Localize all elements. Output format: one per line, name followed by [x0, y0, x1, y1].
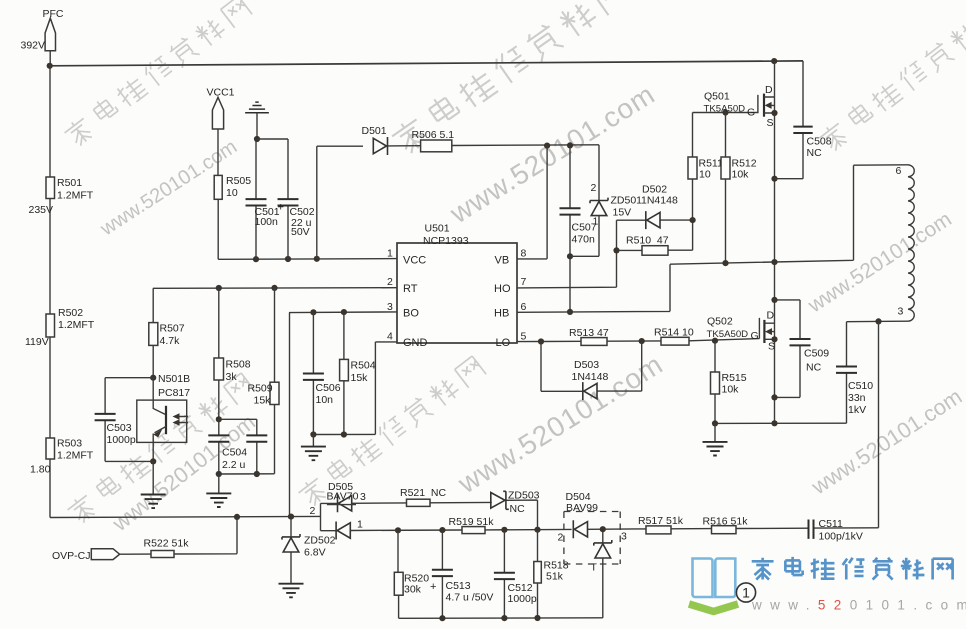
svg-text:TK5A50D: TK5A50D — [704, 104, 746, 115]
svg-text:G: G — [751, 330, 759, 342]
svg-text:470n: 470n — [572, 234, 596, 246]
connector VCC1 — [207, 86, 235, 129]
wire VCC to D501 riser — [316, 146, 318, 259]
logo circled 1 — [736, 583, 755, 602]
resistor R505 — [214, 175, 251, 199]
capacitor C504 left — [208, 419, 247, 474]
svg-text:R516 51k: R516 51k — [703, 515, 749, 527]
svg-text:OVP-CJ: OVP-CJ — [52, 550, 91, 562]
resistor R503 — [30, 437, 94, 475]
svg-text:1kV: 1kV — [848, 404, 866, 416]
svg-text:BAV70: BAV70 — [327, 491, 359, 503]
wire HB row pin6 — [517, 264, 670, 312]
svg-text:R501: R501 — [57, 177, 82, 189]
node bottom-C512 — [501, 615, 507, 621]
svg-text:1000p: 1000p — [107, 434, 136, 446]
svg-text:1: 1 — [357, 519, 363, 531]
node HB-halfbridge — [771, 259, 777, 265]
node C504 right bottom — [254, 471, 260, 477]
zener ZD503 NC — [430, 490, 540, 530]
svg-text:1.80: 1.80 — [30, 463, 51, 475]
wire RT row pin2 — [153, 287, 397, 290]
svg-text:C504: C504 — [222, 447, 247, 459]
node OVP rail ZD502-BO — [288, 514, 294, 520]
svg-text:6: 6 — [896, 165, 902, 177]
svg-text:3: 3 — [898, 306, 904, 318]
node C509 top branch — [771, 297, 777, 303]
wire BO-OVP bottom rail — [50, 516, 321, 517]
node opto emitter — [150, 458, 156, 464]
svg-text:2: 2 — [558, 532, 564, 544]
svg-text:GND: GND — [403, 337, 428, 349]
svg-text:100p/1kV: 100p/1kV — [819, 531, 863, 543]
svg-text:VCC1: VCC1 — [207, 86, 235, 98]
wire C511 riser — [878, 321, 880, 527]
svg-text:3: 3 — [387, 301, 393, 313]
wire LO row pin5 and gate Q502 — [517, 318, 759, 342]
svg-text:HO: HO — [494, 283, 511, 295]
ground top earth above C501 — [245, 102, 269, 139]
svg-text:D501: D501 — [362, 125, 387, 137]
node RT-R509 — [271, 285, 277, 291]
node row-R520 — [395, 527, 401, 533]
ground under ZD502 — [279, 584, 304, 598]
resistor R520 — [394, 530, 429, 618]
node row-C513 — [439, 527, 445, 533]
wire source ground rail — [715, 422, 847, 424]
transistor Q501 TK5A50D MOSFET — [704, 84, 775, 129]
wire BO row pin3 — [289, 311, 397, 314]
node VCC-C502 — [285, 256, 291, 262]
node PFC rail junction — [47, 63, 53, 69]
wire PFC stub — [49, 51, 51, 66]
svg-text:C508: C508 — [807, 136, 832, 148]
connector OVP-CJ — [52, 549, 120, 562]
resistor R506 — [412, 129, 455, 152]
node gate-R515 — [712, 338, 718, 344]
node C507-ZD501 anode — [567, 253, 573, 259]
svg-text:HB: HB — [494, 307, 509, 319]
svg-text:R510 47: R510 47 — [626, 234, 669, 246]
svg-text:1: 1 — [387, 248, 393, 260]
wire C504 bottom rail to R509 — [219, 405, 275, 475]
ground under C504 — [206, 474, 231, 507]
svg-text:1.2MFT: 1.2MFT — [57, 449, 94, 461]
ground under C506 R504 — [301, 435, 326, 461]
resistor R501 — [29, 177, 94, 216]
svg-text:1.2MFT: 1.2MFT — [58, 319, 95, 331]
svg-text:C510: C510 — [848, 380, 873, 392]
svg-text:119V: 119V — [25, 336, 49, 348]
svg-text:10n: 10n — [316, 394, 334, 406]
node R513-R514 — [639, 338, 645, 344]
svg-text:2: 2 — [387, 276, 393, 288]
svg-text:S: S — [768, 341, 775, 353]
node HB-R512 — [722, 260, 728, 266]
svg-text:15V: 15V — [613, 207, 632, 219]
diode D502 1N4148 — [617, 183, 693, 229]
svg-text:T: T — [591, 562, 598, 574]
node LO pin5 — [538, 338, 544, 344]
svg-text:PC817: PC817 — [158, 387, 190, 399]
resistor R515 — [711, 341, 747, 424]
node VB riser — [544, 143, 550, 149]
svg-text:R502: R502 — [58, 307, 83, 319]
diode D504 BAV99 dual — [558, 491, 647, 618]
svg-text:D: D — [767, 310, 775, 322]
node VCC-C501 — [253, 256, 259, 262]
node winding-C511 riser — [875, 318, 881, 324]
svg-text:C511: C511 — [819, 518, 843, 530]
diode D501 — [362, 125, 388, 155]
logo url — [751, 598, 966, 613]
resistor R513 — [569, 327, 609, 345]
resistor R521 NC — [400, 487, 447, 507]
capacitor C508 — [775, 61, 832, 179]
wire half-bridge vertical Q501-Q502 — [774, 61, 776, 423]
svg-text:2.2 u: 2.2 u — [222, 459, 246, 471]
node C504 left bottom — [216, 471, 222, 477]
svg-text:6.8V: 6.8V — [304, 547, 326, 559]
svg-text:3: 3 — [360, 491, 366, 503]
wire HB rail — [670, 165, 908, 264]
svg-text:BO: BO — [403, 307, 419, 319]
capacitor C513 electrolytic — [430, 530, 493, 618]
svg-text:G: G — [747, 106, 755, 118]
node GND-C506 — [310, 431, 316, 437]
logo chinese title — [752, 557, 953, 580]
wire BO drop to OVP rail — [289, 313, 291, 517]
svg-text:R507: R507 — [160, 323, 185, 335]
svg-text:ZD501: ZD501 — [611, 195, 643, 207]
wire winding pin3 lead — [847, 320, 909, 323]
wire R517-R516 — [671, 528, 712, 530]
svg-text:235V: 235V — [29, 204, 54, 216]
resistor R510 — [617, 220, 693, 255]
connector PFC — [21, 8, 64, 52]
resistor R514 — [654, 327, 694, 346]
wire feedback row right of R519 — [485, 528, 572, 531]
capacitor C511 series — [736, 518, 879, 543]
wire VB riser to pin8 — [517, 146, 547, 259]
ground under optocoupler — [141, 461, 166, 508]
svg-text:NCP1393: NCP1393 — [423, 235, 469, 247]
wire D501 row — [317, 145, 599, 146]
resistor R508 — [214, 288, 251, 419]
node bottom-R518 — [534, 615, 540, 621]
wire R505 to VCC rail — [217, 199, 219, 259]
svg-text:R522 51k: R522 51k — [144, 538, 190, 550]
svg-text:1: 1 — [742, 585, 750, 601]
wire PFC top rail — [50, 61, 803, 66]
svg-text:D504: D504 — [566, 491, 591, 503]
node rail-R515 — [712, 420, 718, 426]
svg-text:R515: R515 — [722, 372, 747, 384]
svg-text:N501B: N501B — [158, 373, 190, 385]
svg-text:PFC: PFC — [43, 8, 64, 20]
svg-text:1N4148: 1N4148 — [641, 194, 678, 206]
svg-text:6: 6 — [521, 301, 527, 313]
svg-text:R514 10: R514 10 — [654, 327, 694, 339]
node C508 bottom junction — [771, 176, 777, 182]
inductor transformer primary winding — [896, 165, 915, 321]
svg-text:BAV99: BAV99 — [566, 502, 598, 514]
node D502-R511 — [690, 217, 696, 223]
node ground-C501-C502 junction — [254, 136, 260, 142]
node Q501 drain on PFC rail — [771, 58, 777, 64]
wire VCC rail — [218, 258, 397, 261]
resistor R522 — [120, 517, 237, 558]
WATERMARKS — [62, 0, 966, 526]
svg-text:R509: R509 — [248, 382, 273, 394]
svg-text:1: 1 — [593, 216, 599, 228]
logo book icon — [689, 559, 738, 612]
svg-text:R506 5.1: R506 5.1 — [412, 129, 455, 141]
svg-text:C513: C513 — [446, 580, 471, 592]
wire bottom return rail — [399, 617, 603, 620]
svg-text:7: 7 — [521, 276, 527, 288]
svg-text:R503: R503 — [57, 437, 82, 449]
svg-text:C509: C509 — [804, 348, 829, 360]
resistor R504 — [340, 312, 376, 434]
node VCC-D501 branch — [314, 256, 320, 262]
zener ZD502 6.8V — [282, 517, 336, 584]
wire PFC left column — [49, 66, 51, 518]
svg-text:VCC: VCC — [403, 254, 426, 266]
svg-text:R508: R508 — [226, 358, 251, 370]
svg-text:D: D — [765, 84, 773, 96]
svg-text:ZD502: ZD502 — [304, 535, 336, 547]
wire C504 top branch — [219, 419, 257, 435]
svg-text:1.2MFT: 1.2MFT — [57, 189, 94, 201]
wire HO row pin7 — [517, 220, 617, 288]
svg-text:U501: U501 — [425, 223, 450, 235]
node row-R518 ZD503 — [534, 527, 540, 533]
wire GND pin4 route — [313, 342, 397, 435]
svg-text:15k: 15k — [254, 394, 272, 406]
svg-text:1000p: 1000p — [508, 593, 537, 605]
resistor R512 — [721, 113, 757, 265]
svg-text:4.7 u /50V: 4.7 u /50V — [446, 592, 494, 604]
ground under R515 — [703, 423, 728, 455]
wire Q501 gate — [693, 95, 758, 113]
svg-text:R504: R504 — [351, 359, 376, 371]
svg-text:NC: NC — [807, 147, 823, 159]
node GND-R504 — [341, 431, 347, 437]
svg-text:VB: VB — [495, 254, 510, 266]
svg-text:TK5A50D: TK5A50D — [707, 329, 749, 340]
resistor R507 — [149, 288, 185, 377]
wire ground junction to C502 top — [257, 138, 288, 140]
resistor R516 — [703, 515, 749, 533]
svg-text:Q501: Q501 — [704, 90, 730, 102]
svg-text:4: 4 — [387, 331, 393, 343]
node Q502 source stub — [771, 336, 777, 342]
op-amp U501 NCP1393 controller IC — [387, 223, 527, 349]
svg-text:50V: 50V — [291, 226, 310, 238]
node bottom-C513 — [439, 615, 445, 621]
capacitor C506 — [303, 312, 341, 434]
svg-text:10: 10 — [226, 187, 238, 199]
node C509 bottom junction — [771, 394, 777, 400]
node row-C512 — [501, 527, 507, 533]
svg-text:D503: D503 — [574, 359, 599, 371]
transistor Q502 TK5A50D MOSFET — [707, 310, 776, 353]
capacitor C504 right section — [246, 435, 267, 474]
svg-text:8: 8 — [521, 248, 527, 260]
svg-text:+: + — [430, 581, 436, 593]
svg-text:3k: 3k — [226, 371, 238, 383]
node C507 riser — [567, 142, 573, 148]
resistor R518 — [534, 530, 569, 618]
svg-text:NC: NC — [510, 503, 526, 515]
resistor R519 — [449, 516, 495, 534]
svg-text:2: 2 — [591, 182, 597, 194]
resistor R502 — [25, 307, 95, 348]
node HO-R510 tap — [613, 247, 619, 253]
svg-text:Q502: Q502 — [707, 316, 733, 328]
svg-text:3: 3 — [621, 531, 627, 543]
svg-text:1N4148: 1N4148 — [572, 371, 609, 383]
svg-text:51k: 51k — [546, 571, 564, 583]
svg-text:S: S — [767, 117, 774, 129]
transistor N501B PC817 optocoupler — [137, 378, 188, 462]
svg-text:R519 51k: R519 51k — [449, 516, 495, 528]
svg-text:C503: C503 — [107, 422, 132, 434]
capacitor C509 — [775, 300, 830, 398]
node D504 junction — [600, 526, 606, 532]
node R508-C504 — [216, 416, 222, 422]
svg-text:LO: LO — [496, 337, 511, 349]
svg-text:2: 2 — [310, 505, 316, 517]
svg-text:10k: 10k — [722, 384, 740, 396]
capacitor C501 — [246, 139, 280, 259]
svg-text:www.520101.com: www.520101.com — [751, 598, 966, 613]
node C507-HB row — [567, 309, 573, 315]
node rail-Q502 source — [771, 420, 777, 426]
node gate-R512 — [722, 109, 728, 115]
resistor R511 — [688, 113, 723, 221]
diode D505 BAV70 dual — [310, 481, 463, 540]
node R507-opto collector — [150, 375, 156, 381]
svg-text:10k: 10k — [732, 168, 750, 180]
svg-text:392V: 392V — [21, 40, 46, 52]
capacitor C502 — [278, 139, 315, 259]
resistor R517 — [638, 515, 684, 534]
svg-text:R521 NC: R521 NC — [400, 487, 447, 499]
capacitor C507 — [560, 145, 597, 312]
resistor R509 — [248, 288, 280, 406]
svg-text:ZD503: ZD503 — [508, 490, 540, 502]
diode D503 1N4148 bypass — [541, 341, 642, 400]
capacitor C510 — [836, 322, 873, 424]
svg-text:R517 51k: R517 51k — [638, 515, 684, 527]
zener ZD501 15V — [570, 145, 642, 256]
svg-text:+: + — [278, 202, 284, 214]
svg-text:15k: 15k — [351, 372, 369, 384]
wire VCC1 stub — [217, 129, 219, 175]
svg-text:NC: NC — [806, 362, 822, 374]
svg-text:5: 5 — [521, 331, 527, 343]
svg-text:100n: 100n — [255, 216, 279, 228]
svg-text:C506: C506 — [316, 382, 341, 394]
node Q501 source stub — [771, 110, 777, 116]
svg-text:R505: R505 — [226, 175, 251, 187]
svg-text:10: 10 — [699, 168, 711, 180]
node BO-C506 — [310, 309, 316, 315]
svg-text:R513 47: R513 47 — [569, 327, 609, 339]
node BO-R504 — [341, 309, 347, 315]
svg-text:33n: 33n — [848, 392, 866, 404]
svg-text:30k: 30k — [404, 583, 422, 595]
capacitor C503 — [95, 378, 154, 462]
svg-text:RT: RT — [403, 283, 418, 295]
node OVP rail R522 tap — [234, 514, 240, 520]
capacitor C512 — [494, 530, 537, 618]
node RT-R508 — [216, 285, 222, 291]
svg-text:4.7k: 4.7k — [160, 335, 181, 347]
